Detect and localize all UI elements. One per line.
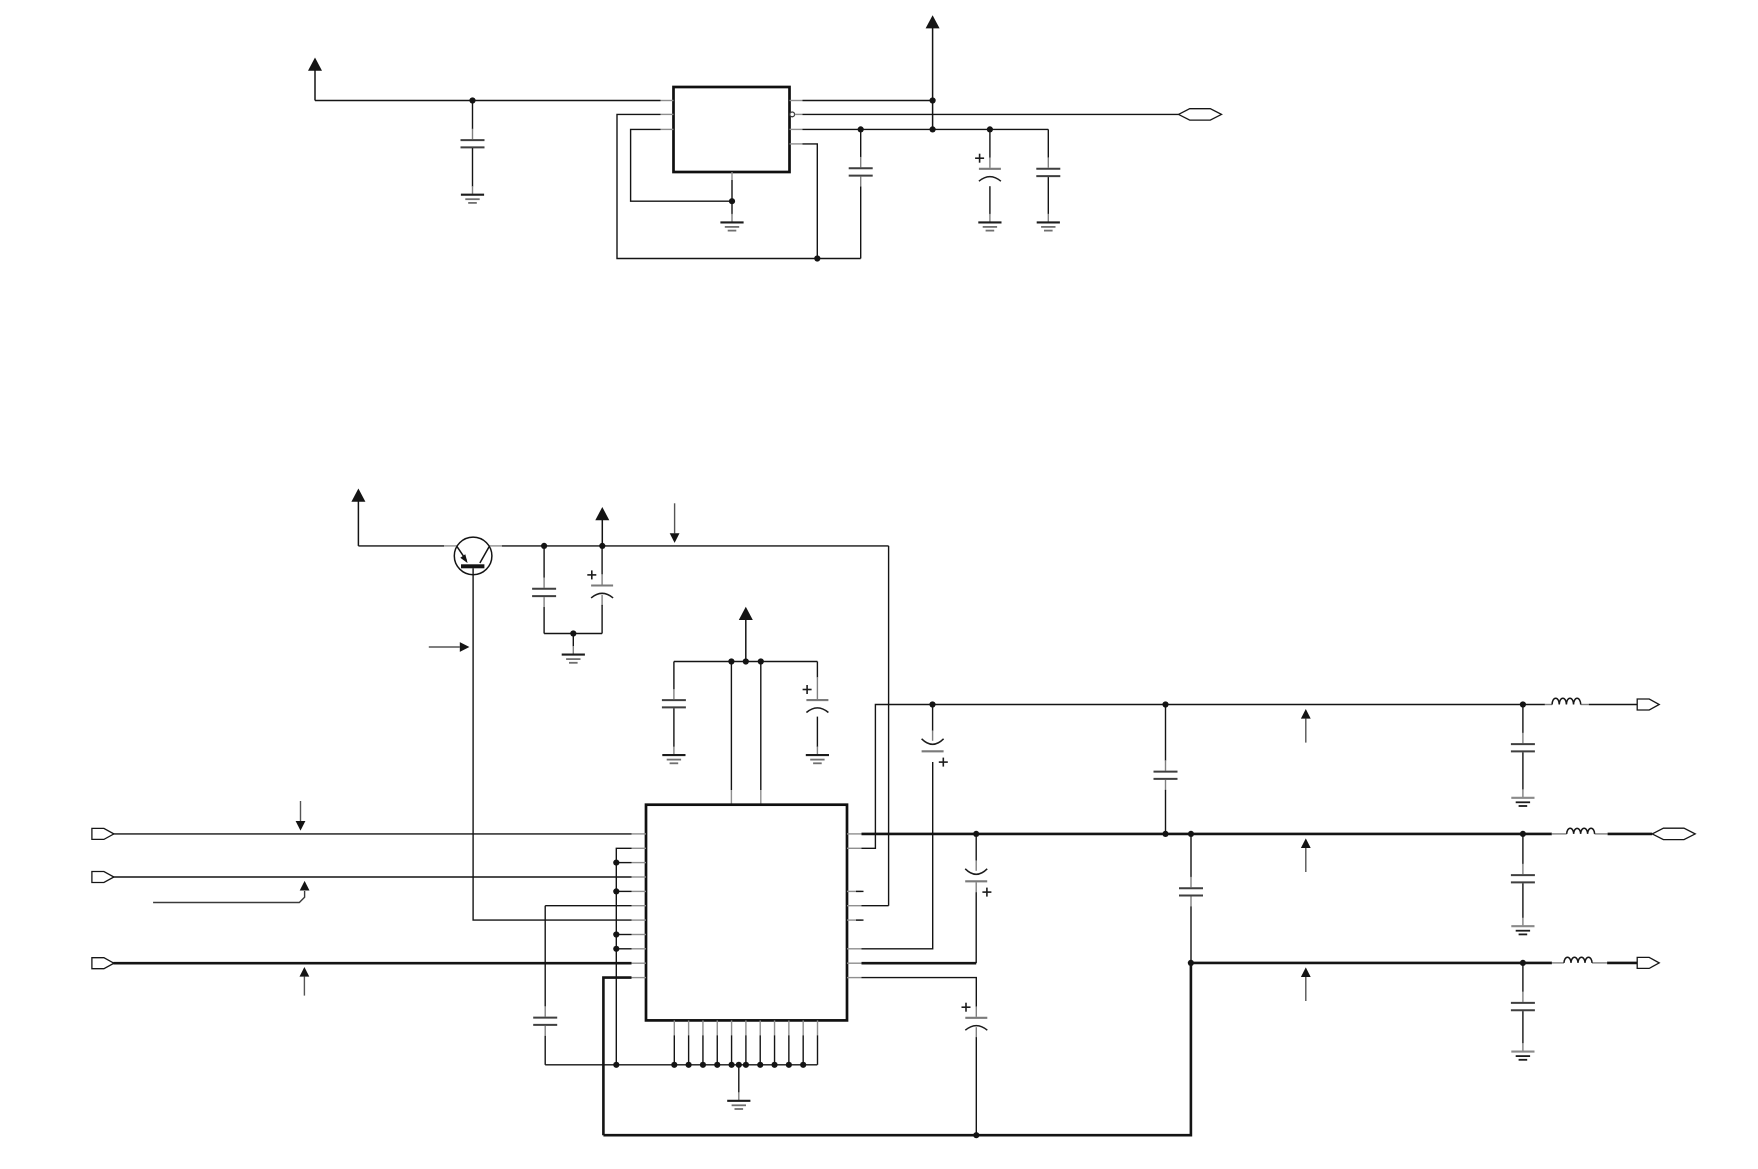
output net tag net3 [1637, 957, 1659, 968]
wire U1 PG to connector [803, 113, 1179, 115]
wire J1 to U2 [113, 833, 631, 835]
U1 pin stub NC [661, 128, 674, 130]
wire U1 GND pin down [731, 180, 733, 201]
bus dot row3 [613, 860, 631, 866]
junction top rail at C5 [541, 543, 547, 549]
input connector J2 [92, 872, 114, 883]
bottom gather wire [545, 1064, 817, 1066]
power symbol VCC4 [595, 507, 609, 546]
U2 right pin stubs [847, 834, 862, 978]
input connector J3 [92, 958, 114, 969]
inductor L1 leads [1545, 704, 1589, 706]
bus dot row8 [613, 931, 631, 937]
capacitor CP3 polarized [962, 1000, 988, 1135]
capacitor C1 [461, 101, 485, 194]
input connector J1 [92, 828, 114, 839]
wire U2 pin L11 bold [603, 978, 631, 1136]
wire U2 bus left [616, 848, 631, 1065]
output net tag net1 [1637, 699, 1659, 710]
U1 pin stub GND [731, 172, 733, 180]
bus dot row9 [613, 946, 631, 952]
junction net2 C13 [1520, 831, 1526, 837]
U1 pin stub EN [661, 113, 674, 115]
wire top rail left [358, 545, 444, 547]
U2 left pin stubs [632, 834, 647, 978]
capacitor C10 [1154, 705, 1178, 834]
junction net2 C11 [1188, 831, 1194, 837]
junction FB at VCC riser [930, 126, 936, 132]
ground under C14 [1511, 1052, 1534, 1060]
wire L2 to connector bold [1608, 833, 1653, 836]
wire Q1 base [473, 568, 631, 920]
transistor Q1 [454, 537, 492, 575]
wire U1 FB rail [803, 128, 1049, 130]
ground under U2 [727, 1065, 750, 1109]
inductor L1 [1552, 698, 1581, 704]
U1 pin stub IN [661, 100, 674, 102]
junction bottom rail at CP3 [973, 1132, 979, 1138]
bottom bold rail [603, 963, 1191, 1135]
junction net2 C10 [1162, 831, 1168, 837]
wire U2 R10 bold [862, 962, 977, 965]
junction mid rail T1 [728, 658, 734, 664]
capacitor C6 polarized [587, 546, 613, 634]
wire VDD pin T1 [730, 662, 732, 805]
U2 bottom pin stubs [674, 1020, 817, 1035]
wire U1 OUT [803, 100, 933, 102]
arrow onto top rail [670, 503, 680, 543]
capacitor C13 [1511, 834, 1535, 926]
wire U2 pin L6 to C9 [545, 905, 631, 907]
junction net3 corner [1188, 960, 1194, 966]
capacitor C7 [662, 662, 686, 755]
U1 pin stub ADJ [790, 143, 803, 145]
ground under C4 [1037, 222, 1060, 230]
arrow onto net1 [1301, 709, 1311, 743]
Q1 emitter stub [444, 545, 457, 547]
U1 pin stub OUT [790, 100, 803, 102]
ground under C13 [1511, 926, 1534, 934]
wire J3 to U2 bold [113, 962, 631, 965]
main IC U2 [646, 805, 847, 1021]
capacitor C9 [533, 906, 557, 1065]
arrow onto J3 wire [300, 967, 310, 996]
capacitor CP2 polarized flipped [965, 834, 991, 963]
junction mid rail T2 [758, 658, 764, 664]
capacitor C5 [532, 546, 556, 634]
ground under C3 [978, 222, 1001, 230]
wire U2 R2 net1 [862, 705, 1545, 849]
junction top rail at C6 [599, 543, 605, 549]
capacitor C12 [1511, 705, 1535, 798]
U2 bottom pin wires [671, 1035, 817, 1068]
inductor L3 leads [1552, 962, 1607, 964]
capacitor C2 [849, 129, 873, 258]
capacitor CP1 polarized flipped [922, 705, 948, 767]
ground under C7 [662, 755, 685, 763]
U1 pin stub FB [790, 128, 803, 130]
arrow onto J1 wire [296, 801, 306, 831]
U2 R7 stub wire [856, 919, 864, 921]
junction FB at C2 [858, 126, 864, 132]
junction FB at C3 [987, 126, 993, 132]
U2 R5 stub wire [856, 890, 864, 892]
output net tag PG [1179, 109, 1222, 120]
junction on bottom loop [814, 255, 820, 261]
junction U1 ground node [729, 198, 735, 204]
wire U2 R1 bold net2 [862, 833, 1552, 836]
wire L1 to connector [1589, 704, 1637, 706]
power symbol VCC2 riser [926, 15, 940, 129]
junction at analog gnd [570, 630, 576, 636]
arrow onto net3 [1301, 967, 1311, 1001]
wire U1 ADJ loop [803, 144, 818, 259]
inductor L2 [1567, 828, 1595, 834]
capacitor C11 [1179, 834, 1203, 963]
wire U2 R11 to CP3 [862, 978, 977, 1000]
junction mid rail pwr [743, 658, 749, 664]
arrow pointing at Q1 base [429, 642, 470, 652]
wire top rail right [502, 545, 889, 547]
ground under C8 [806, 755, 829, 763]
voltage regulator U1 [674, 87, 790, 172]
junction net2 CP2 [973, 831, 979, 837]
inductor L3 [1564, 957, 1592, 963]
wire U1 EN loop [617, 114, 861, 258]
power symbol VCC3 [351, 489, 365, 546]
junction OUT at VCC riser [930, 97, 936, 103]
wire net3 bold [1191, 962, 1552, 965]
junction gather gnd [736, 1062, 742, 1068]
wire U1 NC to GND node [631, 129, 732, 201]
junction net1 CP1 [929, 701, 935, 707]
bent arrow onto J2 wire [153, 881, 309, 903]
arrow onto net2 [1301, 838, 1311, 872]
capacitor C14 [1511, 963, 1535, 1051]
wire L3 to connector bold [1607, 962, 1637, 965]
bus dot row5 [613, 888, 631, 894]
junction net1 C10 [1162, 701, 1168, 707]
wire VDD pin T2 [760, 662, 762, 805]
wire VIN to U1 pin IN [315, 100, 661, 102]
U1 inverted pin bubble PG [790, 112, 803, 117]
wire C5 C6 bottom join [544, 633, 602, 635]
junction bus at gather [613, 1062, 619, 1068]
wire J2 to U2 [113, 876, 631, 878]
ground under U1 [720, 201, 743, 230]
wire mid rail [674, 661, 818, 663]
wire U2 R6 to top rail [862, 905, 889, 907]
ground under C1 [461, 195, 484, 203]
inductor L2 leads [1552, 833, 1608, 835]
junction node at C1 top [469, 97, 475, 103]
ground under C5 C6 [562, 634, 585, 663]
junction net3 C14 [1520, 960, 1526, 966]
wire top rail riser [888, 546, 890, 906]
ground under C12 [1511, 798, 1534, 806]
Q1 collector stub [489, 545, 502, 547]
capacitor C8 polarized [803, 662, 829, 755]
power symbol VCC5 [739, 607, 753, 662]
output net tag net2 [1652, 828, 1695, 839]
capacitor C3 polarized [975, 129, 1001, 221]
junction net1 C12 [1520, 701, 1526, 707]
capacitor C4 [1036, 129, 1060, 221]
wire U2 R9 to CP1 [862, 762, 933, 949]
power symbol VCC1 [308, 58, 322, 101]
